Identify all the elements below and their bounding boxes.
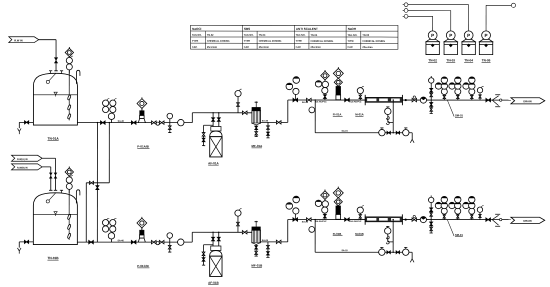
svg-text:SA-PE/PVC: SA-PE/PVC bbox=[315, 101, 327, 104]
svg-text:TYPE: TYPE bbox=[192, 40, 199, 43]
svg-text:25cc/min: 25cc/min bbox=[259, 46, 270, 49]
svg-text:ANTI SCALENT: ANTI SCALENT bbox=[296, 27, 318, 31]
svg-text:TYPE: TYPE bbox=[244, 40, 251, 43]
svg-text:MF-01A: MF-01A bbox=[251, 144, 263, 148]
header valve bbox=[242, 111, 247, 114]
svg-text:P-01C/D: P-01C/D bbox=[137, 264, 149, 268]
analyzer circles bbox=[294, 208, 296, 220]
gauge drain valve bbox=[169, 123, 171, 126]
sample line bbox=[315, 251, 412, 253]
drain stem below bbox=[430, 220, 432, 233]
AF neck flange bbox=[211, 126, 221, 131]
mixer outlet tee bbox=[405, 218, 407, 220]
header check valve bbox=[293, 98, 298, 101]
gauge drain valve bbox=[169, 242, 171, 245]
sample valve 1 bbox=[387, 251, 390, 254]
inline pump circle bbox=[178, 119, 184, 125]
fill nozzle tee bbox=[54, 70, 57, 72]
riser to main header bbox=[287, 100, 289, 122]
svg-text:M-01B: M-01B bbox=[355, 232, 363, 236]
svg-text:TN-01A: TN-01A bbox=[48, 137, 60, 141]
signal connector 1 bbox=[404, 3, 408, 7]
filter AF-01A bbox=[210, 131, 222, 137]
svg-text:TN-04: TN-04 bbox=[464, 58, 473, 62]
riser to filter header bbox=[191, 113, 193, 123]
crossover valve bbox=[89, 181, 93, 184]
header check valve bbox=[293, 218, 298, 221]
fill line bbox=[39, 39, 56, 41]
dosing pump skid TN-03 bbox=[446, 31, 455, 40]
tank drain line bbox=[19, 241, 33, 243]
svg-text:TN-02: TN-02 bbox=[207, 34, 214, 37]
agitator impeller bbox=[67, 214, 71, 220]
relief valve diamond bbox=[65, 168, 73, 176]
instrument circle bbox=[66, 177, 72, 183]
cartridge filter MF-01A bbox=[255, 101, 257, 107]
fill valve B bbox=[49, 173, 53, 176]
header valve 2 bbox=[306, 218, 311, 221]
svg-text:SA-15: SA-15 bbox=[342, 130, 349, 133]
filter pressure gauge bbox=[235, 90, 241, 96]
pressure switch cluster bbox=[103, 100, 109, 106]
injection point B bbox=[337, 215, 339, 220]
drain flag bbox=[511, 98, 545, 104]
liquid level line bbox=[33, 213, 77, 215]
svg-text:DRAIN: DRAIN bbox=[523, 99, 531, 103]
header valve bbox=[242, 231, 247, 234]
storage tank TN-01B bbox=[33, 193, 77, 245]
check valve bbox=[345, 98, 350, 101]
drain flag bbox=[511, 217, 545, 223]
inlet flag RW bbox=[9, 37, 39, 43]
sample valve 1 bbox=[387, 131, 390, 134]
expander bell bbox=[492, 96, 498, 106]
check valve bbox=[345, 218, 350, 221]
injection stem 1 bbox=[430, 203, 432, 220]
sample valve 2 bbox=[396, 251, 399, 254]
analyzer circles bbox=[294, 88, 296, 100]
sample return riser bbox=[392, 220, 394, 253]
svg-text:CHEMICAL DOSING: CHEMICAL DOSING bbox=[207, 40, 230, 43]
pressure gauge bbox=[108, 113, 114, 119]
injection point A bbox=[324, 80, 326, 100]
signal line to pump 1 bbox=[408, 15, 433, 17]
svg-text:P: P bbox=[485, 33, 488, 38]
inline pump circle bbox=[178, 239, 184, 245]
fill line B bbox=[42, 166, 51, 168]
svg-text:NaOH: NaOH bbox=[348, 27, 356, 31]
AF twin inlet valves bbox=[212, 232, 214, 246]
svg-text:FI-01B: FI-01B bbox=[333, 232, 342, 236]
dosing pump skid TN-02 bbox=[428, 31, 437, 40]
sample pump 2 bbox=[403, 129, 409, 135]
vent pipe bbox=[76, 190, 80, 204]
svg-text:TYPE: TYPE bbox=[348, 40, 355, 43]
svg-text:TAG NO.: TAG NO. bbox=[296, 34, 306, 37]
svg-text:P: P bbox=[431, 33, 434, 38]
svg-text:TAG NO.: TAG NO. bbox=[244, 34, 254, 37]
storage tank TN-01A bbox=[33, 73, 77, 125]
mixer pressure gauge bbox=[357, 207, 363, 213]
svg-text:AF-01B: AF-01B bbox=[208, 281, 219, 285]
instrument circle bbox=[66, 183, 72, 189]
svg-text:SA-15: SA-15 bbox=[341, 249, 348, 252]
svg-text:CHEMICAL DOSING: CHEMICAL DOSING bbox=[362, 40, 385, 43]
pressure switch cluster bbox=[102, 220, 108, 226]
fill check valve bbox=[54, 58, 57, 61]
svg-text:R.W IN: R.W IN bbox=[14, 38, 22, 42]
svg-text:SM-01: SM-01 bbox=[455, 233, 463, 237]
MF outlet line bbox=[261, 121, 288, 123]
svg-text:TN-05: TN-05 bbox=[482, 58, 491, 62]
svg-text:SA-PE/PVC: SA-PE/PVC bbox=[315, 220, 327, 223]
fill valve A bbox=[54, 173, 58, 176]
fill line A bbox=[42, 157, 55, 159]
svg-text:R.W(B) IN: R.W(B) IN bbox=[17, 168, 28, 170]
capped nozzle bbox=[60, 190, 62, 193]
svg-text:M-01A: M-01A bbox=[355, 112, 363, 116]
outlet drain stub bbox=[267, 242, 269, 257]
sample pump 1 bbox=[379, 129, 385, 135]
suction isolation valve bbox=[89, 240, 94, 243]
agitator impeller bbox=[67, 105, 71, 111]
suction valve 2 bbox=[131, 121, 136, 124]
svg-text:P: P bbox=[449, 33, 452, 38]
svg-text:CAP.: CAP. bbox=[192, 46, 198, 49]
svg-text:TN-01B: TN-01B bbox=[47, 256, 59, 260]
capped nozzle bbox=[50, 71, 52, 74]
outlet drain stub bbox=[267, 122, 269, 137]
AF tee nodes bbox=[212, 112, 213, 113]
svg-text:AF-01A: AF-01A bbox=[208, 161, 219, 165]
analyzer assembly bbox=[385, 228, 391, 234]
injection cluster 2 bbox=[443, 214, 445, 220]
svg-text:TN-05: TN-05 bbox=[362, 34, 369, 37]
riser to filter header bbox=[191, 232, 193, 242]
filter pressure gauge bbox=[235, 210, 241, 216]
svg-text:CAP.: CAP. bbox=[347, 46, 353, 49]
svg-text:CHEMICAL DOSING: CHEMICAL DOSING bbox=[259, 40, 282, 43]
analyzer assembly bbox=[385, 108, 391, 114]
spray nozzle bbox=[46, 200, 49, 203]
svg-text:SA-PE/PVC: SA-PE/PVC bbox=[350, 220, 362, 223]
static mixer M-01A bbox=[365, 97, 402, 102]
svg-text:25cc/min: 25cc/min bbox=[311, 46, 322, 49]
sample return riser bbox=[392, 100, 394, 133]
sample leader bbox=[447, 100, 454, 116]
svg-text:P: P bbox=[467, 33, 470, 38]
coupling circle bbox=[156, 122, 159, 125]
svg-text:FI-01A: FI-01A bbox=[333, 112, 342, 116]
main header line bbox=[288, 99, 365, 101]
AF tee nodes bbox=[212, 232, 213, 233]
spray nozzle bbox=[46, 80, 49, 83]
sample line bbox=[315, 132, 412, 134]
sample tap bbox=[314, 220, 316, 253]
tank drain line bbox=[19, 121, 33, 123]
sample pump 1 bbox=[379, 249, 385, 255]
outlet valve bbox=[276, 121, 281, 124]
svg-text:SA-40: SA-40 bbox=[118, 239, 125, 242]
injection stem 5 bbox=[479, 213, 481, 220]
svg-text:SA-PE/PVC: SA-PE/PVC bbox=[350, 101, 362, 104]
svg-text:CAP.: CAP. bbox=[296, 46, 302, 49]
svg-text:TN-03: TN-03 bbox=[259, 34, 266, 37]
svg-text:SA-25: SA-25 bbox=[262, 239, 269, 242]
injection point A bbox=[324, 200, 326, 220]
static mixer M-01B bbox=[365, 217, 402, 222]
svg-text:SA-25: SA-25 bbox=[262, 119, 269, 122]
metering pump P-01C/D bbox=[137, 218, 147, 228]
inline instrument bbox=[420, 216, 426, 222]
sample leader bbox=[447, 220, 454, 236]
svg-text:CAP.: CAP. bbox=[244, 46, 250, 49]
header valve 2 bbox=[307, 98, 312, 101]
mixer outlet valve bbox=[412, 98, 416, 101]
discharge valve 2 bbox=[159, 121, 164, 124]
mixer outlet valve bbox=[412, 218, 416, 221]
drain valve bbox=[25, 121, 29, 124]
drain drop bbox=[18, 242, 20, 248]
agitator shaft bbox=[68, 69, 70, 120]
agitator impeller bbox=[67, 224, 71, 230]
instrument circle bbox=[66, 57, 72, 63]
pump suction line bbox=[77, 241, 192, 243]
drain stem below bbox=[430, 100, 432, 113]
injection cluster 3 bbox=[457, 95, 459, 101]
injection cluster 2 bbox=[443, 95, 445, 101]
main header line bbox=[288, 219, 365, 221]
injection cluster 3 bbox=[457, 214, 459, 220]
crossover line A bbox=[96, 123, 98, 242]
agitator impeller bbox=[67, 95, 71, 101]
pressure gauge bbox=[108, 233, 114, 239]
pressure indicator bbox=[167, 113, 173, 119]
mixer pressure gauge bbox=[357, 88, 363, 94]
dosing pump skid TN-04 bbox=[464, 31, 473, 40]
final check valve bbox=[486, 218, 491, 221]
drain drop bbox=[18, 122, 20, 128]
MF drain stub bbox=[255, 244, 257, 256]
discharge valve bbox=[151, 240, 156, 243]
signal connector 4 bbox=[511, 3, 515, 7]
injection cluster 4 bbox=[471, 214, 473, 220]
agitator shaft bbox=[68, 189, 70, 240]
expander bell bbox=[492, 215, 498, 225]
suction isolation valve bbox=[101, 121, 106, 124]
riser to main header bbox=[287, 220, 289, 242]
AF twin inlet valves bbox=[212, 113, 214, 127]
injection stem 5 bbox=[479, 93, 481, 100]
fill nozzle tee bbox=[54, 189, 57, 191]
drain Y bbox=[18, 128, 22, 134]
suction valve 2 bbox=[131, 240, 136, 243]
svg-text:TAG NO.: TAG NO. bbox=[192, 34, 202, 37]
svg-text:TYPE: TYPE bbox=[296, 40, 303, 43]
filter AF-01B bbox=[210, 251, 222, 257]
mixer outlet tee bbox=[405, 99, 407, 101]
svg-text:TN-02: TN-02 bbox=[428, 58, 437, 62]
sample tap bbox=[314, 100, 316, 133]
svg-text:MF-01B: MF-01B bbox=[251, 263, 263, 267]
vent pipe bbox=[76, 70, 80, 84]
level indicator symbol bbox=[54, 92, 57, 95]
inlet flag RW-A bbox=[11, 155, 42, 161]
crossover drop bbox=[85, 183, 87, 242]
metering pump P-01A/B bbox=[137, 99, 147, 109]
stem to tank dome bbox=[68, 189, 70, 193]
MF drain stub bbox=[255, 125, 257, 137]
svg-text:NaOCl: NaOCl bbox=[192, 27, 201, 31]
signal line to pump 2 bbox=[408, 9, 451, 11]
svg-text:SA-25: SA-25 bbox=[302, 101, 309, 104]
svg-text:SM-01: SM-01 bbox=[455, 113, 463, 117]
discharge valve 2 bbox=[159, 240, 164, 243]
AF neck flange bbox=[211, 246, 221, 251]
relief valve diamond bbox=[65, 48, 73, 56]
svg-text:CHEMICAL DOSING: CHEMICAL DOSING bbox=[311, 40, 334, 43]
crossover line B bbox=[108, 123, 110, 183]
svg-text:SA-25: SA-25 bbox=[302, 221, 309, 224]
coupling circle bbox=[156, 242, 159, 245]
outlet valve bbox=[276, 240, 281, 243]
level indicator symbol bbox=[54, 212, 57, 215]
svg-text:25cc/min: 25cc/min bbox=[207, 46, 218, 49]
AF drain branch bbox=[204, 124, 214, 126]
svg-text:SBS: SBS bbox=[244, 27, 250, 31]
svg-text:P-01A/B: P-01A/B bbox=[137, 145, 149, 149]
svg-text:DRAIN: DRAIN bbox=[523, 219, 531, 223]
svg-text:25cc/min: 25cc/min bbox=[362, 46, 373, 49]
crossover valve 2 bbox=[96, 186, 99, 190]
liquid level line bbox=[33, 94, 77, 96]
discharge valve bbox=[152, 121, 157, 124]
signal connector 3 bbox=[404, 14, 408, 18]
inlet flag RW-B bbox=[11, 164, 42, 170]
inline instrument bbox=[420, 97, 426, 103]
agitator impeller bbox=[67, 114, 71, 120]
svg-text:TAG NO.: TAG NO. bbox=[348, 34, 358, 37]
svg-text:R.W(A) IN: R.W(A) IN bbox=[17, 158, 28, 161]
injection stem 1 bbox=[430, 83, 432, 100]
injection point B bbox=[337, 95, 339, 100]
signal line to pump 3 bbox=[408, 4, 469, 6]
pressure indicator bbox=[167, 233, 173, 239]
svg-text:TN-03: TN-03 bbox=[446, 58, 455, 62]
pump suction line bbox=[77, 122, 192, 124]
stem to tank dome bbox=[68, 70, 70, 74]
svg-text:SA-40: SA-40 bbox=[118, 120, 125, 123]
capped nozzle bbox=[61, 71, 63, 74]
injection cluster 4 bbox=[471, 95, 473, 101]
final check valve bbox=[486, 98, 491, 101]
sample valve 2 bbox=[396, 131, 399, 134]
signal connector 2 bbox=[404, 9, 408, 13]
sample drain bbox=[411, 252, 413, 259]
drain Y bbox=[17, 248, 21, 254]
cartridge filter MF-01B bbox=[255, 221, 257, 227]
dosing pump skid TN-05 bbox=[482, 31, 491, 40]
MF outlet line bbox=[260, 241, 287, 243]
sample drain bbox=[411, 133, 413, 140]
chemical dosing table frame bbox=[191, 25, 398, 49]
instrument circle bbox=[66, 64, 72, 70]
agitator impeller bbox=[67, 233, 71, 239]
fill nozzle tee bbox=[49, 189, 52, 191]
sample pump 2 bbox=[403, 249, 409, 255]
svg-text:TN-04: TN-04 bbox=[311, 34, 318, 37]
drain valve bbox=[24, 240, 28, 243]
crossover jog bbox=[86, 182, 109, 184]
AF drain branch bbox=[204, 244, 213, 246]
signal line pump 4 bbox=[485, 5, 487, 31]
